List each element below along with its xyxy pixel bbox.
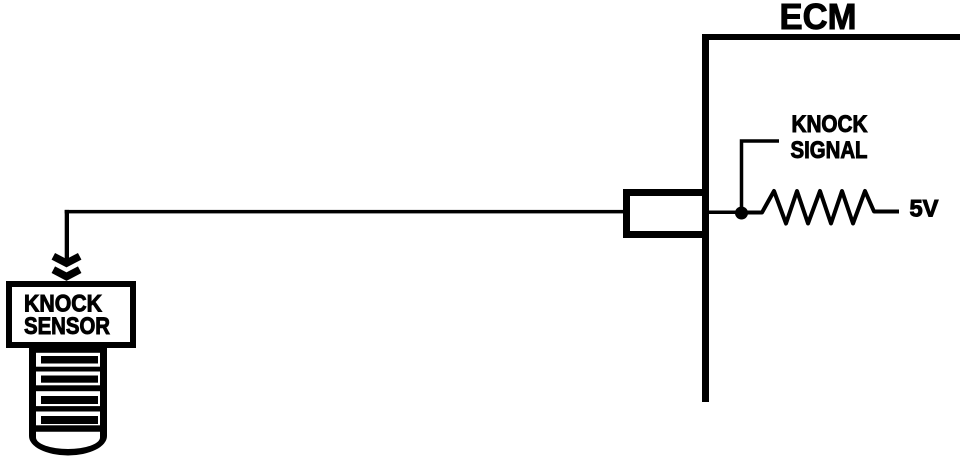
svg-text:ECM: ECM — [780, 0, 857, 37]
KNOCK SIGNAL label — [791, 111, 868, 164]
wire from connector to node — [709, 211, 737, 215]
arrow chevron 2 — [53, 270, 79, 277]
arrow chevron 1 — [53, 256, 79, 263]
thread groove 3 — [36, 391, 100, 406]
svg-text:SENSOR: SENSOR — [24, 313, 110, 340]
KNOCK SENSOR label — [24, 291, 110, 340]
ECM top boundary line — [702, 34, 960, 40]
thread ridge 2 — [41, 376, 98, 383]
main signal wire horizontal run — [65, 210, 626, 214]
knock signal stub wire — [742, 141, 780, 213]
body outline with rounded tip — [29, 348, 107, 456]
knock sensor threaded body — [29, 348, 107, 456]
knock sensor box — [9, 284, 133, 345]
main signal wire vertical drop — [65, 210, 69, 265]
resistor R1 — [746, 191, 899, 224]
svg-text:KNOCK: KNOCK — [792, 111, 868, 138]
ECM vertical boundary line — [702, 34, 709, 402]
thread ridge 3 — [41, 396, 98, 404]
thread groove 4 — [36, 412, 100, 426]
svg-text:SIGNAL: SIGNAL — [791, 137, 868, 164]
svg-text:5V: 5V — [910, 196, 939, 223]
thread ridge 4 — [41, 416, 98, 424]
thread groove 1 — [36, 353, 100, 367]
tip cavity — [36, 432, 100, 449]
thread groove 2 — [36, 372, 100, 386]
node junction dot — [735, 207, 748, 220]
thread ridge 1 — [41, 356, 98, 364]
connector C1 — [627, 193, 706, 235]
